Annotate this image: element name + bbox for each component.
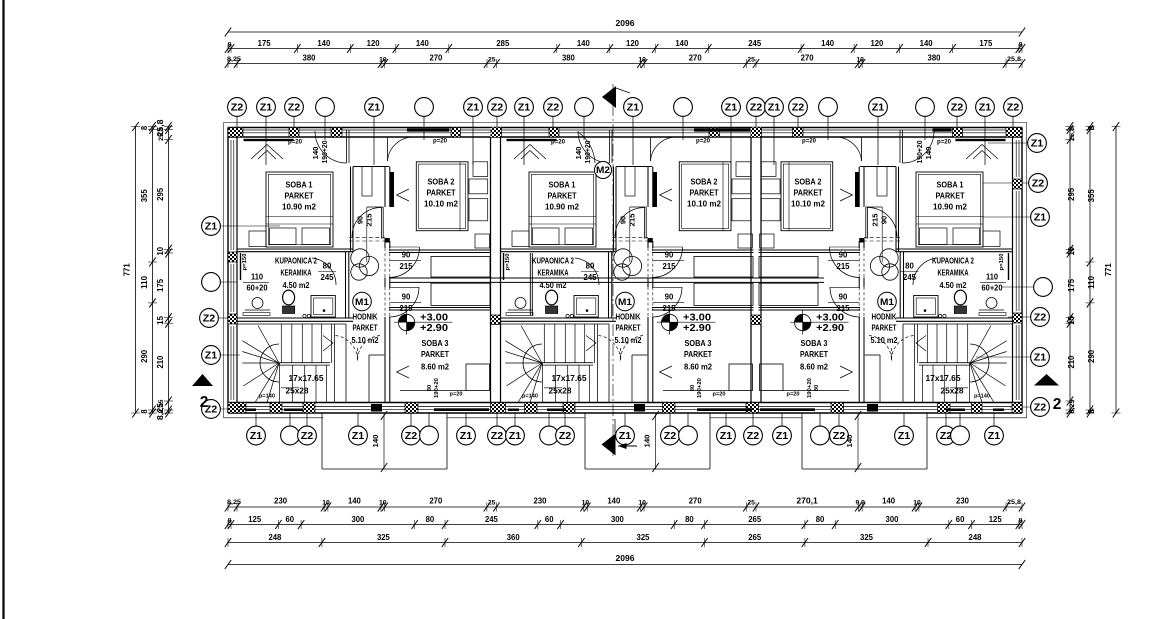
grid bubble Z2 top x=497 <box>496 117 498 131</box>
svg-text:SOBA 2: SOBA 2 <box>795 177 822 187</box>
top dimension chain total 2096 <box>228 31 1022 33</box>
right wall window glazing <box>1015 140 1017 177</box>
soba1 door leaf and arc <box>902 130 904 163</box>
svg-text:210: 210 <box>155 355 165 368</box>
svg-text:60: 60 <box>545 514 554 524</box>
svg-text:10: 10 <box>856 57 864 64</box>
svg-text:190+20: 190+20 <box>807 378 813 398</box>
svg-text:2096: 2096 <box>616 553 635 563</box>
grid bubble Z1 right y=143 <box>988 142 1028 144</box>
left wall window glazing <box>230 140 232 250</box>
svg-text:Z1: Z1 <box>250 431 263 442</box>
svg-text:+2.90: +2.90 <box>683 323 712 334</box>
entry vestibule <box>368 355 370 403</box>
svg-text:215: 215 <box>365 214 374 227</box>
svg-text:245: 245 <box>903 273 917 282</box>
svg-text:25x28: 25x28 <box>941 386 964 396</box>
door arc soba2 entry <box>652 247 683 278</box>
svg-text:245: 245 <box>584 273 598 282</box>
soba2 window door leaf and arc <box>650 137 652 161</box>
svg-text:Z1: Z1 <box>776 431 789 442</box>
unit 1 level marker <box>398 314 414 330</box>
svg-text:Z2: Z2 <box>664 431 677 442</box>
grid bubble Z1 top x=524 <box>523 117 525 166</box>
svg-text:10.90 m2: 10.90 m2 <box>545 202 579 212</box>
svg-text:4.50 m2: 4.50 m2 <box>940 281 967 290</box>
grid bubble Z2 bottom x=565 <box>564 413 566 426</box>
svg-text:120: 120 <box>367 38 380 48</box>
stair door chevron <box>586 336 596 352</box>
svg-text:80: 80 <box>427 385 433 391</box>
svg-text:215: 215 <box>663 304 677 313</box>
left dimension chain mid <box>152 127 154 414</box>
svg-text:140: 140 <box>416 38 429 48</box>
unit 3 geometry mirrored <box>759 130 1013 469</box>
grid bubble window bottom x=290 <box>289 413 291 426</box>
svg-text:PARKET: PARKET <box>684 349 713 359</box>
svg-text:25,8: 25,8 <box>1007 499 1021 506</box>
svg-text:10.10 m2: 10.10 m2 <box>687 199 721 209</box>
soba1 bed <box>916 172 983 247</box>
svg-text:230: 230 <box>956 496 969 506</box>
unit2 bathroom divider wall <box>529 253 531 316</box>
svg-text:SOBA 2: SOBA 2 <box>691 177 718 187</box>
svg-text:Z1: Z1 <box>467 102 480 113</box>
svg-text:SOBA 2: SOBA 2 <box>428 177 455 187</box>
svg-text:5.10 m2: 5.10 m2 <box>352 336 379 345</box>
svg-text:Z2: Z2 <box>301 431 314 442</box>
chevron soba2 <box>840 189 852 201</box>
entry vestibule <box>879 355 881 403</box>
roof eaves outline <box>224 122 1027 124</box>
grid bubble Z1 top x=633 <box>632 117 634 166</box>
svg-text:175: 175 <box>155 279 165 292</box>
left wall hatched piers <box>228 252 237 262</box>
grid bubble Z1 bottom x=726 <box>725 413 727 426</box>
bathroom wc <box>283 290 295 305</box>
top dimension chain row of axis spacings <box>228 48 1022 50</box>
bathroom door arc <box>913 258 937 285</box>
svg-text:PARKET: PARKET <box>872 324 897 333</box>
svg-text:p=20: p=20 <box>450 392 463 398</box>
svg-text:17x17.65: 17x17.65 <box>552 373 587 383</box>
svg-text:8: 8 <box>139 409 149 413</box>
soba2 bed <box>416 162 468 231</box>
svg-text:125: 125 <box>989 514 1002 524</box>
svg-text:Z2: Z2 <box>1007 102 1020 113</box>
svg-text:10: 10 <box>1066 247 1076 256</box>
grid bubble window right y=287 <box>1002 286 1034 288</box>
bottom dimension chain total 2096 <box>228 564 1022 566</box>
svg-text:Z1: Z1 <box>720 431 733 442</box>
hodnik dashed double arc <box>336 336 358 361</box>
grid bubble Z1 bottom x=994 <box>993 413 995 426</box>
svg-text:215: 215 <box>400 262 414 271</box>
top window chevron <box>514 145 546 160</box>
grid bubble window top x=424 <box>423 117 425 141</box>
soba1 interior door jamb and arc <box>867 207 869 239</box>
bottom wall hatched piers <box>228 403 246 414</box>
bottom dimension chain row 1 <box>228 506 1022 508</box>
corridor wardrobe <box>625 167 635 197</box>
balcony depth dimensions 140 <box>383 414 385 469</box>
bathroom sink <box>515 298 526 309</box>
svg-text:190+20: 190+20 <box>585 140 592 163</box>
M2 window mark circle <box>595 162 612 179</box>
left dimension chain inner <box>168 127 170 414</box>
corridor dark bar <box>653 172 657 207</box>
svg-text:80: 80 <box>905 262 914 271</box>
chevron soba3 <box>397 366 409 378</box>
right dimension chain inner <box>1069 127 1071 414</box>
section 1 marker bottom triangle <box>602 434 616 456</box>
grid bubble Z2 left y=409 <box>221 408 238 410</box>
top wall window glazing lines <box>242 129 289 131</box>
kupaonica top wall <box>896 248 1012 250</box>
svg-text:265: 265 <box>748 514 761 524</box>
bathroom wc <box>546 290 558 305</box>
top wall in-wall window bars <box>407 128 449 131</box>
svg-text:10: 10 <box>913 500 921 507</box>
soba1 bed <box>529 172 596 247</box>
grid bubble Z2 bottom x=307 <box>306 413 308 426</box>
svg-text:SOBA 3: SOBA 3 <box>685 338 712 348</box>
svg-text:8: 8 <box>228 518 232 525</box>
top dimension chain row of openings <box>228 63 1022 65</box>
svg-text:+3.00: +3.00 <box>816 313 845 324</box>
svg-text:60+20: 60+20 <box>982 284 1004 293</box>
svg-text:+2.90: +2.90 <box>420 323 449 334</box>
unit 2 level marker <box>661 314 677 330</box>
svg-text:M1: M1 <box>880 297 894 307</box>
svg-text:Z2: Z2 <box>951 102 964 113</box>
grid bubble window top x=683 <box>682 117 684 141</box>
grid bubble window bottom x=820 <box>819 413 821 426</box>
svg-text:295: 295 <box>1066 188 1076 201</box>
svg-text:PARKET: PARKET <box>616 324 641 333</box>
svg-text:325: 325 <box>377 532 390 542</box>
svg-text:248: 248 <box>268 532 281 542</box>
svg-text:175: 175 <box>1066 279 1076 292</box>
svg-text:90: 90 <box>356 216 365 224</box>
kupaonica bottom wall <box>500 317 616 319</box>
svg-text:2: 2 <box>200 394 209 411</box>
grid bubble Z2 bottom x=839 <box>838 413 840 426</box>
svg-text:Z1: Z1 <box>988 431 1001 442</box>
corridor dark bar <box>390 172 394 207</box>
soba1 nightstand <box>512 231 529 247</box>
svg-text:8: 8 <box>228 42 232 49</box>
svg-text:Z2: Z2 <box>750 102 763 113</box>
svg-text:Z1: Z1 <box>352 431 365 442</box>
svg-text:Z1: Z1 <box>1034 352 1047 363</box>
grid bubble window left y=282 <box>221 281 238 283</box>
bathroom door arc <box>312 258 336 285</box>
grid bubble window bottom x=688 <box>687 413 689 426</box>
kupaonica bottom wall <box>237 317 353 319</box>
corridor wall <box>384 167 386 208</box>
svg-text:Z1: Z1 <box>518 102 531 113</box>
svg-text:5.10 m2: 5.10 m2 <box>615 336 642 345</box>
svg-text:80: 80 <box>816 514 825 524</box>
svg-text:25,8: 25,8 <box>1069 127 1076 141</box>
svg-text:300: 300 <box>886 514 899 524</box>
grid bubble Z1 top x=985 <box>984 117 986 166</box>
svg-text:Z1: Z1 <box>725 102 738 113</box>
soba3 balcony door niche <box>760 364 784 391</box>
bathroom shower tray <box>311 296 335 318</box>
soba3 top wall <box>652 307 754 309</box>
top wall hatched piers <box>228 128 243 138</box>
svg-text:245: 245 <box>485 514 498 524</box>
svg-text:8: 8 <box>1019 518 1023 525</box>
svg-text:Z1: Z1 <box>1034 212 1047 223</box>
stair text strike line <box>544 387 562 389</box>
svg-text:Z1: Z1 <box>872 102 885 113</box>
soba2 bottom wall <box>652 249 754 251</box>
svg-text:140: 140 <box>373 434 380 447</box>
svg-text:2096: 2096 <box>616 18 635 28</box>
soba1 nightstand <box>983 231 1000 247</box>
svg-text:p=140: p=140 <box>974 394 990 400</box>
svg-text:Z2: Z2 <box>559 431 572 442</box>
svg-text:10.90 m2: 10.90 m2 <box>933 202 967 212</box>
soba2 bed <box>781 162 833 231</box>
svg-text:190+20: 190+20 <box>434 378 440 398</box>
grid bubble Z1 left y=355 <box>221 354 241 356</box>
grid bubble Z2 right y=317 <box>1008 316 1031 318</box>
svg-text:PARKET: PARKET <box>936 191 966 201</box>
soba1 bed <box>266 172 333 247</box>
svg-text:10.10 m2: 10.10 m2 <box>791 199 825 209</box>
svg-text:Z2: Z2 <box>747 431 760 442</box>
soba3 top wall <box>759 307 861 309</box>
grid bubble Z2 top x=237 <box>236 117 238 131</box>
bathroom p150 bar <box>1008 253 1010 280</box>
soba1 interior door jamb and arc <box>381 207 383 239</box>
section 2 marker left triangle <box>192 374 213 386</box>
svg-text:PARKET: PARKET <box>794 188 824 198</box>
svg-text:140: 140 <box>882 496 895 506</box>
mid niche rects <box>431 257 490 278</box>
svg-text:+3.00: +3.00 <box>683 313 712 324</box>
svg-text:80: 80 <box>323 262 332 271</box>
soba2 window door leaf and arc <box>861 137 863 161</box>
svg-text:p=20: p=20 <box>937 139 952 146</box>
svg-text:190+20: 190+20 <box>697 378 703 398</box>
top exterior wall <box>228 127 1022 129</box>
svg-text:Z2: Z2 <box>491 431 504 442</box>
grid bubble Z2 left y=318 <box>219 317 234 319</box>
grid bubble Z1 top x=878 <box>877 117 879 166</box>
svg-text:Z2: Z2 <box>1034 402 1047 413</box>
grid bubble Z1 right y=357 <box>976 356 1031 358</box>
svg-text:110: 110 <box>986 273 999 282</box>
svg-text:140: 140 <box>317 38 330 48</box>
bottom window parapet bars <box>508 409 519 412</box>
svg-text:8: 8 <box>139 126 149 130</box>
svg-text:Z1: Z1 <box>260 102 273 113</box>
hodnik dashed double arc <box>599 336 621 361</box>
kupaonica right wall <box>608 252 610 318</box>
svg-text:90: 90 <box>880 216 889 224</box>
svg-text:HODNIK: HODNIK <box>616 313 641 322</box>
svg-text:25x28: 25x28 <box>549 386 572 396</box>
svg-text:PARKET: PARKET <box>353 324 378 333</box>
top window parapet bar <box>507 139 557 141</box>
mid niche rects <box>759 257 818 278</box>
grid bubble Z2 top x=798 <box>797 117 799 131</box>
svg-text:80: 80 <box>426 514 435 524</box>
svg-text:25: 25 <box>488 500 496 507</box>
svg-text:M1: M1 <box>355 297 369 307</box>
chevron soba2 <box>397 189 409 201</box>
kupaonica right wall <box>345 252 347 318</box>
svg-text:Z1: Z1 <box>898 431 911 442</box>
svg-text:120: 120 <box>870 38 883 48</box>
svg-text:110: 110 <box>139 276 149 289</box>
svg-text:190+20: 190+20 <box>322 140 329 163</box>
svg-text:270: 270 <box>689 496 702 506</box>
svg-text:215: 215 <box>628 214 637 227</box>
svg-text:8,25: 8,25 <box>227 56 241 63</box>
stair text strike line <box>950 387 968 389</box>
left dimension chain total 771 <box>135 127 137 414</box>
svg-text:270,1: 270,1 <box>796 496 818 506</box>
top window parapet bar <box>244 139 294 141</box>
soba3 top wall <box>389 307 491 309</box>
m1 circle <box>878 292 897 311</box>
grid bubble Z1 bottom x=515 <box>514 413 516 426</box>
bottom wall window glazing lines <box>237 406 270 408</box>
svg-text:90: 90 <box>619 216 628 224</box>
wall right of soba1 <box>613 167 615 252</box>
stair text strike line <box>281 387 299 389</box>
grid bubble window top x=828 <box>827 117 829 141</box>
grid bubble window top x=325 <box>324 117 326 141</box>
boiler circles <box>351 249 369 267</box>
svg-text:8.60 m2: 8.60 m2 <box>800 362 828 372</box>
right dimension chain total 771 <box>1115 127 1117 414</box>
svg-text:10.10 m2: 10.10 m2 <box>424 199 458 209</box>
svg-text:8: 8 <box>1086 409 1096 413</box>
svg-text:8.60 m2: 8.60 m2 <box>684 362 712 372</box>
corridor wardrobe <box>877 167 887 197</box>
svg-text:Z2: Z2 <box>547 102 560 113</box>
svg-text:285: 285 <box>496 38 509 48</box>
mid niche rects <box>694 257 753 278</box>
grid bubble Z1 bottom x=256 <box>255 413 257 426</box>
section 1 marker top triangle <box>602 86 616 108</box>
corridor wardrobe <box>362 167 372 197</box>
svg-text:+3.00: +3.00 <box>420 313 449 324</box>
party wall 2 <box>750 137 752 403</box>
corridor wall <box>863 167 865 208</box>
svg-text:110: 110 <box>251 273 264 282</box>
svg-text:Z1: Z1 <box>979 102 992 113</box>
svg-text:+2.90: +2.90 <box>816 323 845 334</box>
soba1 nightstand <box>249 231 266 247</box>
svg-text:PARKET: PARKET <box>427 188 457 198</box>
svg-text:Z2: Z2 <box>1034 312 1047 323</box>
balcony box below <box>926 413 928 469</box>
grid bubble window top x=925 <box>924 117 926 141</box>
door arc soba3 entry <box>652 287 682 317</box>
svg-text:140: 140 <box>926 146 933 159</box>
grid bubble Z1 bottom x=625 <box>624 413 626 426</box>
svg-text:270: 270 <box>689 53 702 63</box>
svg-text:10: 10 <box>638 500 646 507</box>
svg-text:245: 245 <box>748 38 761 48</box>
svg-text:p=20: p=20 <box>802 138 817 145</box>
door arc soba3 entry <box>389 287 419 317</box>
bathroom sink <box>252 298 263 309</box>
svg-text:17x17.65: 17x17.65 <box>926 373 961 383</box>
svg-text:140: 140 <box>821 38 834 48</box>
bathroom shower tray <box>914 296 938 318</box>
svg-text:SOBA 3: SOBA 3 <box>801 338 828 348</box>
chevron soba3 <box>840 366 852 378</box>
svg-text:140: 140 <box>920 38 933 48</box>
svg-text:125: 125 <box>248 514 261 524</box>
svg-text:175: 175 <box>258 38 271 48</box>
stairs <box>237 323 346 325</box>
bottom window parapet bars <box>245 409 256 412</box>
kupaonica bottom wall <box>896 317 1012 319</box>
svg-text:80: 80 <box>690 385 696 391</box>
grid bubble Z2 bottom x=670 <box>669 413 671 426</box>
grid bubble Z2 top x=553 <box>552 117 554 131</box>
svg-text:Z1: Z1 <box>768 102 781 113</box>
bottom dimension chain row 2 <box>228 524 1022 526</box>
svg-text:300: 300 <box>351 514 364 524</box>
door arc soba2 entry <box>389 247 420 278</box>
svg-text:8,25: 8,25 <box>1069 399 1076 413</box>
grid bubble window bottom x=549 <box>548 413 550 426</box>
door arc soba3 entry <box>830 287 860 317</box>
svg-text:90: 90 <box>665 251 674 260</box>
grid bubble Z2 right y=183 <box>983 182 1029 184</box>
top window chevron <box>251 145 283 160</box>
svg-text:SOBA 1: SOBA 1 <box>549 180 576 190</box>
long mid horizontal double line <box>390 277 824 279</box>
svg-text:300: 300 <box>611 514 624 524</box>
svg-text:80: 80 <box>814 385 820 391</box>
svg-text:25,8: 25,8 <box>158 127 165 141</box>
svg-text:215: 215 <box>837 304 851 313</box>
bottom exterior wall <box>228 402 1022 404</box>
svg-text:90: 90 <box>839 251 848 260</box>
grid bubble Z1 top x=473 <box>472 117 474 166</box>
drawing sheet left frame line <box>2 0 4 619</box>
svg-text:HODNIK: HODNIK <box>872 313 897 322</box>
svg-text:360: 360 <box>507 532 520 542</box>
svg-text:140: 140 <box>348 496 361 506</box>
svg-text:Z2: Z2 <box>792 102 805 113</box>
svg-text:PARKET: PARKET <box>421 349 450 359</box>
grid bubble window top x=584 <box>583 117 585 141</box>
svg-text:17x17.65: 17x17.65 <box>289 373 324 383</box>
balcony box below <box>584 413 586 469</box>
bathroom wc <box>954 290 966 305</box>
stair door chevron <box>323 336 333 352</box>
top window parapet bar <box>955 139 1005 141</box>
right wall hatched piers <box>1013 179 1023 189</box>
svg-text:8: 8 <box>1019 42 1023 49</box>
svg-text:8,25: 8,25 <box>227 499 241 506</box>
svg-text:Z2: Z2 <box>203 313 216 324</box>
left exterior wall <box>227 128 229 414</box>
